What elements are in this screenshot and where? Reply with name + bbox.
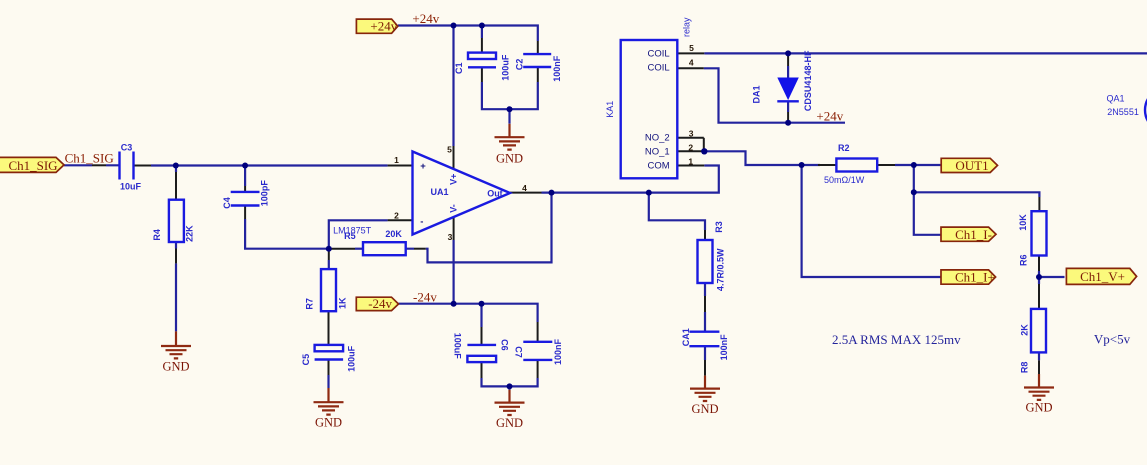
svg-text:KA1: KA1 xyxy=(605,101,615,118)
svg-text:2N5551: 2N5551 xyxy=(1107,107,1139,117)
svg-text:3: 3 xyxy=(689,128,694,138)
svg-text:C5: C5 xyxy=(301,354,311,366)
svg-text:10K: 10K xyxy=(1018,214,1028,231)
svg-text:5: 5 xyxy=(689,43,694,53)
svg-text:+24v: +24v xyxy=(412,11,439,26)
svg-text:C6: C6 xyxy=(499,339,509,351)
svg-text:OUT1: OUT1 xyxy=(955,158,988,173)
svg-text:GND: GND xyxy=(1025,401,1052,415)
svg-text:V+: V+ xyxy=(449,174,459,185)
svg-text:1: 1 xyxy=(394,155,399,165)
svg-text:50mΩ/1W: 50mΩ/1W xyxy=(824,175,865,185)
svg-text:DA1: DA1 xyxy=(751,85,761,103)
svg-text:100pF: 100pF xyxy=(260,180,270,207)
svg-text:GND: GND xyxy=(496,416,523,430)
svg-text:GND: GND xyxy=(315,415,342,429)
svg-text:+24v: +24v xyxy=(370,19,397,34)
svg-text:C7: C7 xyxy=(514,346,524,358)
svg-text:C1: C1 xyxy=(454,62,464,74)
svg-text:QA1: QA1 xyxy=(1107,94,1125,104)
svg-text:Ch1_I+: Ch1_I+ xyxy=(955,270,995,285)
svg-text:Vp<5v: Vp<5v xyxy=(1094,332,1131,347)
svg-text:NO_2: NO_2 xyxy=(645,133,670,144)
svg-text:22K: 22K xyxy=(185,225,195,242)
svg-text:V-: V- xyxy=(449,204,459,213)
svg-text:R8: R8 xyxy=(1020,362,1030,374)
svg-text:relay: relay xyxy=(682,17,692,37)
svg-text:C2: C2 xyxy=(515,59,525,71)
svg-text:100uF: 100uF xyxy=(453,333,463,360)
svg-text:COM: COM xyxy=(648,160,670,171)
svg-text:3: 3 xyxy=(448,232,453,242)
svg-text:-24v: -24v xyxy=(368,296,392,311)
svg-text:C3: C3 xyxy=(121,142,133,152)
svg-text:Out: Out xyxy=(487,189,503,199)
svg-text:UA1: UA1 xyxy=(431,187,449,197)
svg-text:NO_1: NO_1 xyxy=(645,146,670,157)
svg-text:CA1: CA1 xyxy=(681,328,691,346)
svg-text:COIL: COIL xyxy=(648,63,670,74)
svg-text:R7: R7 xyxy=(305,298,315,310)
svg-text:Ch1_I-: Ch1_I- xyxy=(955,227,992,242)
svg-text:COIL: COIL xyxy=(648,49,670,60)
svg-text:4: 4 xyxy=(522,183,527,193)
svg-text:Ch1_SIG: Ch1_SIG xyxy=(8,158,57,173)
svg-text:-: - xyxy=(420,216,423,227)
svg-text:2K: 2K xyxy=(1020,324,1030,336)
svg-text:R2: R2 xyxy=(838,143,850,153)
svg-text:2: 2 xyxy=(688,142,693,152)
svg-text:-24v: -24v xyxy=(413,289,437,304)
svg-text:Ch1_SIG: Ch1_SIG xyxy=(65,151,114,166)
svg-text:R6: R6 xyxy=(1019,254,1029,266)
svg-text:1: 1 xyxy=(688,156,693,166)
svg-text:CDSU4148-HF: CDSU4148-HF xyxy=(803,50,813,111)
svg-text:R3: R3 xyxy=(714,221,724,233)
svg-text:GND: GND xyxy=(496,151,523,165)
svg-text:C4: C4 xyxy=(222,197,232,209)
svg-text:4.7R/0.5W: 4.7R/0.5W xyxy=(716,248,726,291)
svg-text:GND: GND xyxy=(162,359,189,373)
svg-text:GND: GND xyxy=(691,402,718,416)
svg-text:R5: R5 xyxy=(344,231,356,241)
svg-text:100uF: 100uF xyxy=(347,345,357,372)
svg-text:Ch1_V+: Ch1_V+ xyxy=(1080,269,1125,284)
svg-text:4: 4 xyxy=(689,57,694,67)
svg-text:20K: 20K xyxy=(385,229,402,239)
svg-text:100nF: 100nF xyxy=(719,334,729,361)
svg-text:1K: 1K xyxy=(338,297,348,309)
svg-text:10uF: 10uF xyxy=(120,182,142,192)
svg-text:100nF: 100nF xyxy=(553,338,563,365)
svg-text:5: 5 xyxy=(447,144,452,154)
svg-text:+24v: +24v xyxy=(816,109,843,124)
svg-text:100nF: 100nF xyxy=(552,55,562,82)
svg-text:R4: R4 xyxy=(152,229,162,241)
svg-text:100uF: 100uF xyxy=(501,54,511,81)
svg-text:2: 2 xyxy=(394,211,399,221)
svg-text:2.5A RMS MAX 125mv: 2.5A RMS MAX 125mv xyxy=(832,332,961,347)
svg-text:+: + xyxy=(420,161,426,172)
